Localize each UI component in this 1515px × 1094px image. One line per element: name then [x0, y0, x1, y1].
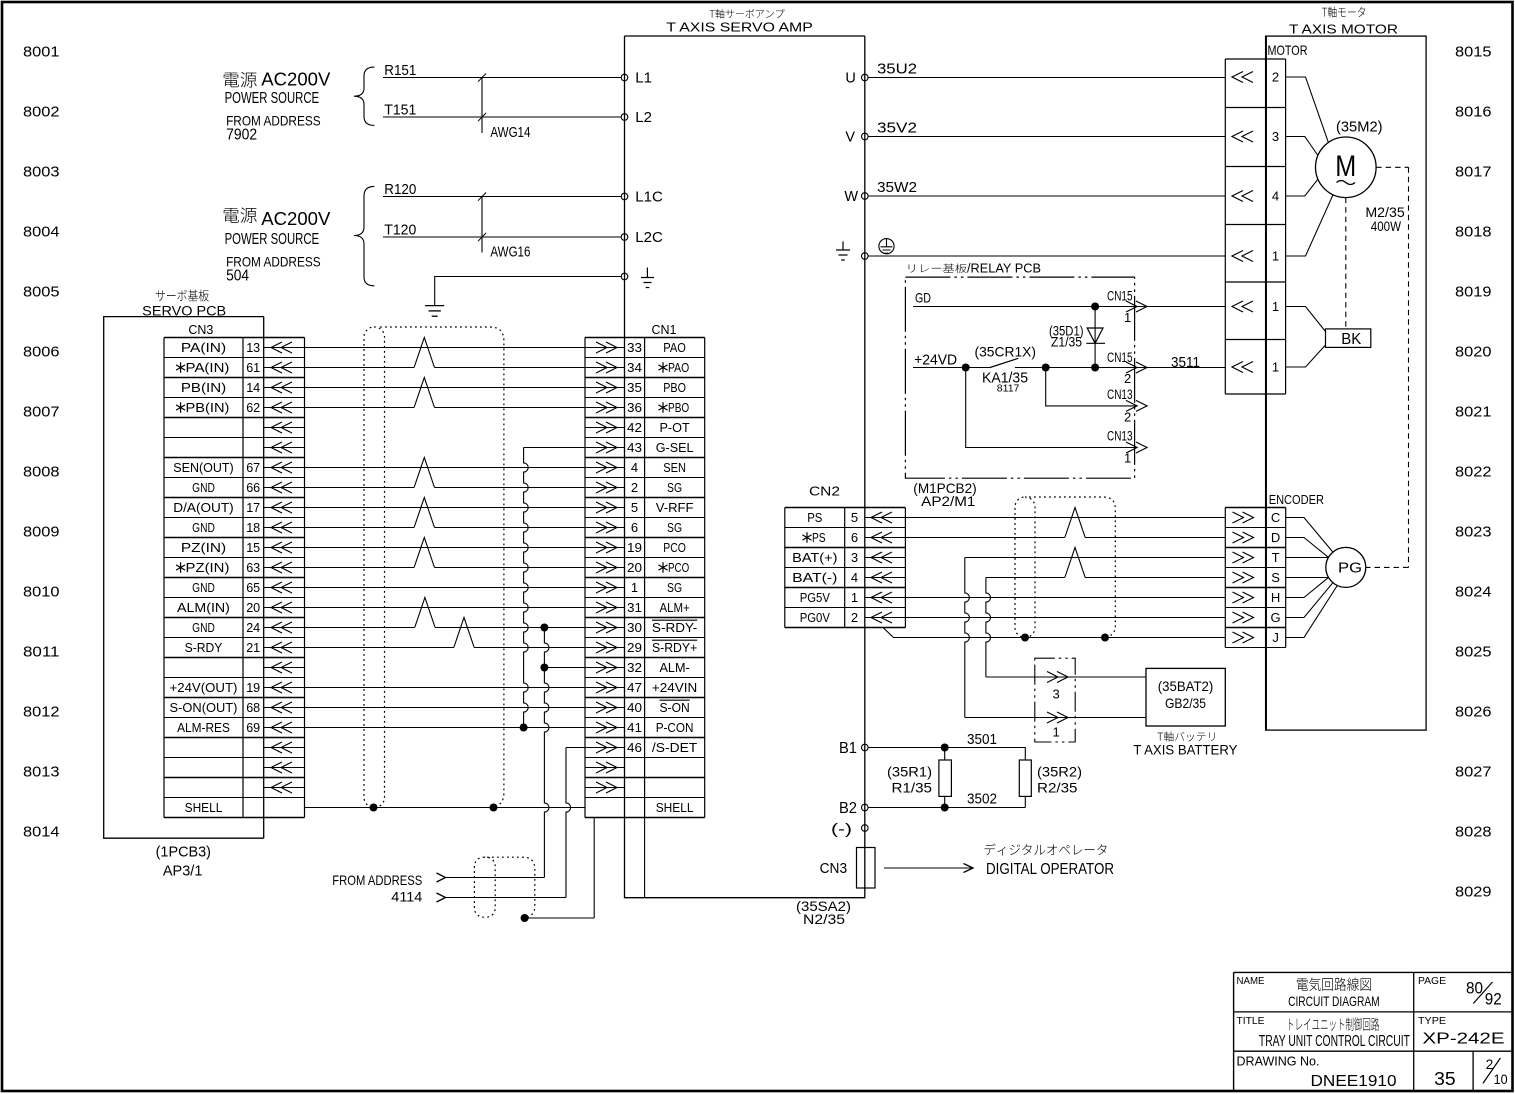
svg-text:PG0V: PG0V	[800, 610, 830, 625]
svg-text:PBO: PBO	[663, 380, 686, 395]
svg-text:8029: 8029	[1455, 884, 1492, 901]
svg-text:(35R1): (35R1)	[887, 763, 932, 779]
wire G-SEL from vertical	[524, 447, 585, 449]
svg-text:B2: B2	[839, 800, 857, 817]
svg-text:PCO: PCO	[663, 540, 686, 555]
svg-text:5: 5	[631, 500, 638, 515]
arrowhead FROM ADDRESS 1	[437, 873, 446, 882]
wire encoder G to PG	[1286, 583, 1333, 618]
CN2 arrow	[865, 617, 906, 619]
CN2 pin 6 *PS	[802, 532, 811, 542]
wire battery plus	[986, 676, 1146, 678]
svg-text:S-ON: S-ON	[660, 700, 690, 715]
terminal W	[862, 193, 869, 200]
encoder pin J	[1233, 632, 1244, 643]
CN3 arrow	[264, 767, 305, 769]
svg-text:POWER SOURCE: POWER SOURCE	[225, 90, 320, 107]
svg-text:CN15: CN15	[1107, 288, 1133, 303]
svg-text:TRAY UNIT CONTROL CIRCUIT: TRAY UNIT CONTROL CIRCUIT	[1259, 1033, 1410, 1050]
earth symbol at ground terminal	[641, 268, 654, 288]
svg-text:504: 504	[226, 268, 249, 285]
svg-text:1: 1	[851, 590, 858, 605]
CN1 arrow	[585, 607, 625, 609]
svg-text:13: 13	[246, 340, 260, 355]
svg-text:TITLE: TITLE	[1237, 1015, 1265, 1027]
svg-text:GND: GND	[192, 480, 215, 495]
relay contact 35CR1X KA1/35	[990, 358, 1018, 367]
svg-text:ALM-: ALM-	[660, 660, 690, 675]
wire contact to CN15-2	[1015, 367, 1225, 369]
terminal B2	[862, 804, 869, 811]
svg-text:D: D	[1271, 530, 1280, 545]
svg-text:(1PCB3): (1PCB3)	[156, 844, 211, 860]
svg-text:3511: 3511	[1171, 354, 1200, 371]
motor connector pin 3	[1232, 131, 1243, 142]
svg-text:P-OT: P-OT	[660, 420, 690, 435]
svg-text:1: 1	[1272, 299, 1279, 314]
svg-text:8016: 8016	[1455, 104, 1492, 121]
CN1 arrow	[585, 467, 625, 469]
svg-text:67: 67	[246, 460, 260, 475]
shield outline encoder wires	[1029, 497, 1115, 638]
svg-text:4: 4	[851, 570, 858, 585]
CN3 arrow	[264, 467, 305, 469]
vertical wire BAT- to battery with hops	[986, 578, 991, 678]
encoder pin C	[1233, 512, 1244, 523]
svg-text:1: 1	[1124, 310, 1131, 325]
CN2 arrow	[865, 537, 906, 539]
svg-text:1: 1	[631, 580, 638, 595]
resistor 35R1 R1/35	[944, 748, 946, 761]
shield outline FROM ADDRESS	[487, 857, 535, 918]
svg-text:PAO: PAO	[663, 340, 686, 355]
CN1 arrow	[585, 447, 625, 449]
svg-text:2: 2	[1124, 371, 1131, 386]
svg-text:MOTOR: MOTOR	[1268, 42, 1308, 58]
CN3 arrow	[264, 707, 305, 709]
svg-text:R151: R151	[384, 62, 416, 79]
wire FROM ADDRESS 1	[445, 877, 544, 879]
svg-text:ENCODER: ENCODER	[1269, 492, 1324, 507]
wire motor pin4 to M	[1286, 179, 1318, 196]
wire BAT- to encoder S with twist	[986, 577, 1065, 579]
wire encoder S to PG	[1286, 577, 1329, 579]
motor connector table	[1225, 58, 1285, 60]
wire T151	[383, 116, 621, 118]
wire row2 with twist	[305, 367, 415, 369]
CN3 table grid	[164, 337, 305, 339]
resistor 35R2 R2/35	[1019, 760, 1031, 796]
svg-text:46: 46	[627, 740, 642, 755]
shield capsule CN3-CN1	[364, 327, 385, 808]
svg-text:B1: B1	[839, 740, 857, 757]
CN3 arrow	[264, 627, 305, 629]
wire row15 with twist, junction to vertical	[305, 627, 415, 629]
wire motor pin3 to M	[1286, 137, 1318, 156]
CN1 arrow	[585, 687, 625, 689]
protective earth circle symbol	[879, 239, 894, 254]
wire motor pin1 to M	[1286, 195, 1333, 256]
svg-text:S: S	[1271, 570, 1280, 585]
svg-text:65: 65	[246, 580, 260, 595]
svg-text:CN13: CN13	[1107, 429, 1133, 444]
svg-text:PA(IN): PA(IN)	[181, 340, 226, 355]
wire 35V2	[868, 136, 1225, 138]
CN3 arrow	[264, 687, 305, 689]
svg-text:(35R2): (35R2)	[1037, 763, 1082, 779]
svg-text:L2C: L2C	[635, 229, 663, 246]
svg-text:8001: 8001	[23, 44, 60, 61]
CN1 arrow	[585, 507, 625, 509]
svg-text:8010: 8010	[23, 584, 60, 601]
svg-text:+24VD: +24VD	[914, 352, 957, 369]
svg-text:17: 17	[246, 500, 260, 515]
shield capsule FROM ADDRESS	[474, 857, 495, 917]
brace power source 1	[354, 67, 374, 125]
wire encoder C to PG	[1286, 518, 1333, 553]
ground symbol	[425, 305, 444, 307]
wire row16 with twist	[305, 647, 454, 649]
CN3 arrow	[264, 607, 305, 609]
CN3 pin 63 *PZ(IN)	[176, 562, 185, 572]
connector CN15 pin 2 arrow	[1126, 362, 1137, 373]
svg-text:PS: PS	[812, 530, 826, 545]
CN2 arrow	[865, 517, 906, 519]
svg-text:SHELL: SHELL	[185, 800, 223, 815]
CN1 arrow	[585, 667, 625, 669]
terminal ground	[621, 273, 628, 280]
svg-text:8009: 8009	[23, 524, 60, 541]
CN2 arrow	[865, 597, 906, 599]
svg-text:GD: GD	[915, 290, 931, 306]
brace power source 2	[354, 186, 374, 285]
wire battery minus	[965, 717, 1146, 719]
svg-text:8012: 8012	[23, 704, 60, 721]
svg-text:H: H	[1271, 590, 1280, 605]
CN3 arrow	[264, 487, 305, 489]
svg-text:3: 3	[1053, 687, 1060, 702]
vertical wire GND/ALM- to FROM ADDRESS with hops	[544, 628, 549, 878]
svg-text:D/A(OUT): D/A(OUT)	[173, 500, 233, 515]
svg-text:BAT(+): BAT(+)	[792, 550, 837, 565]
wire R120	[383, 196, 621, 198]
svg-text:/RELAY PCB: /RELAY PCB	[967, 261, 1041, 275]
svg-text:Z1/35: Z1/35	[1051, 334, 1082, 350]
wire to CN13-2	[1046, 368, 1138, 406]
label relay pcb	[909, 264, 967, 273]
svg-text:C: C	[1271, 510, 1280, 525]
svg-text:2: 2	[851, 610, 858, 625]
svg-text:P-CON: P-CON	[656, 720, 694, 735]
CN3 arrow	[264, 747, 305, 749]
svg-text:24: 24	[246, 620, 260, 635]
CN3 arrow	[264, 727, 305, 729]
motor connector pin 1	[1232, 362, 1243, 373]
wire PG0V to encoder G	[868, 617, 1225, 619]
wire row21 /S-DET from vertical	[566, 747, 585, 749]
svg-text:69: 69	[246, 720, 260, 735]
wire PE to motor	[868, 255, 1225, 257]
svg-text:41: 41	[627, 720, 642, 735]
shield capsule encoder wires	[1015, 497, 1035, 638]
svg-text:8023: 8023	[1455, 524, 1492, 541]
svg-text:S-ON(OUT): S-ON(OUT)	[170, 700, 238, 715]
svg-text:(35BAT2): (35BAT2)	[1158, 678, 1214, 694]
CN1 arrow	[585, 587, 625, 589]
svg-text:30: 30	[627, 620, 642, 635]
power source 1 label JP 電源	[224, 72, 257, 87]
svg-text:43: 43	[627, 440, 642, 455]
svg-text:400W: 400W	[1371, 218, 1402, 234]
CN1 arrow	[585, 527, 625, 529]
label digital operator JP	[985, 844, 1107, 856]
dashed link M to PG	[1366, 167, 1409, 567]
svg-text:62: 62	[246, 400, 260, 415]
svg-text:8015: 8015	[1455, 44, 1492, 61]
CN1 pin 34 *PAO	[658, 362, 667, 372]
svg-text:PAO: PAO	[668, 360, 689, 375]
CN3 arrow	[264, 547, 305, 549]
encoder pin H	[1233, 592, 1244, 603]
CN3 arrow	[264, 587, 305, 589]
svg-text:ALM(IN): ALM(IN)	[177, 600, 230, 615]
terminal V	[862, 133, 869, 140]
svg-text:NAME: NAME	[1237, 975, 1265, 987]
svg-text:33: 33	[627, 340, 642, 355]
svg-text:DNEE1910: DNEE1910	[1311, 1073, 1397, 1090]
svg-text:L1: L1	[635, 70, 652, 87]
CN1 arrow	[585, 407, 625, 409]
svg-text:8013: 8013	[23, 764, 60, 781]
svg-text:8004: 8004	[23, 224, 60, 241]
svg-text:5: 5	[851, 510, 858, 525]
CN1 arrow	[585, 427, 625, 429]
wire +24VD	[913, 367, 990, 369]
terminal U	[862, 74, 869, 81]
CN3 pin 61 *PA(IN)	[176, 362, 185, 372]
svg-text:T151: T151	[384, 101, 416, 118]
svg-text:R1/35: R1/35	[892, 780, 933, 796]
svg-text:PA(IN): PA(IN)	[186, 360, 230, 375]
svg-text:18: 18	[246, 520, 260, 535]
svg-text:15: 15	[246, 540, 260, 555]
CN1 arrow	[585, 727, 625, 729]
wire 35W2	[868, 195, 1225, 197]
CN1 arrow	[585, 767, 625, 769]
encoder pin S	[1233, 572, 1244, 583]
CN1 arrow	[585, 627, 625, 629]
svg-text:8117: 8117	[997, 382, 1020, 394]
wire row13 GND-SG	[305, 587, 586, 589]
vertical wire G-SEL to P-CON with hops	[524, 448, 529, 728]
svg-text:35W2: 35W2	[877, 179, 917, 196]
encoder pin D	[1233, 532, 1244, 543]
wire FROM ADDRESS 2 (4114)	[445, 897, 566, 899]
CN1 arrow	[585, 547, 625, 549]
svg-text:N2/35: N2/35	[803, 911, 845, 927]
CN3 arrow	[264, 567, 305, 569]
encoder pin G	[1233, 612, 1244, 623]
connector CN15 pin 1 arrow	[1126, 301, 1137, 312]
vertical wire /S-DET to 4114 with hops	[566, 748, 571, 898]
terminal L2	[621, 114, 628, 121]
svg-text:(35M2): (35M2)	[1336, 119, 1383, 135]
svg-text:AP3/1: AP3/1	[163, 864, 203, 880]
CN3 arrow	[264, 647, 305, 649]
CN3 pin 62 *PB(IN)	[176, 402, 185, 412]
svg-text:8006: 8006	[23, 344, 60, 361]
shield outline CN3-CN1	[380, 327, 504, 808]
wire encoder H to PG	[1286, 577, 1329, 597]
CN3 arrow	[264, 407, 305, 409]
svg-text:G-SEL: G-SEL	[656, 440, 694, 455]
svg-text:S-RDY-: S-RDY-	[652, 620, 697, 635]
wire row3	[305, 387, 586, 389]
svg-text:BAT(-): BAT(-)	[792, 570, 837, 585]
motor M circle 35M2	[1316, 137, 1377, 198]
svg-text:SHELL: SHELL	[656, 800, 694, 815]
svg-text:8014: 8014	[23, 824, 60, 841]
svg-text:PS: PS	[807, 510, 822, 525]
arrowhead FROM ADDRESS 2	[437, 893, 446, 902]
svg-text:35V2: 35V2	[877, 120, 917, 137]
svg-text:/S-DET: /S-DET	[652, 740, 697, 755]
wire encoder T to PG	[1286, 557, 1329, 559]
wire B2 to resistors	[868, 807, 1025, 809]
svg-text:AWG14: AWG14	[490, 125, 530, 141]
wire row11 PZ	[305, 547, 586, 549]
wire motor pin1-3511 to BK	[1286, 345, 1326, 367]
cable tie AWG16	[481, 197, 483, 253]
shield drain junction	[521, 914, 529, 922]
svg-text:2: 2	[1272, 70, 1279, 85]
svg-text:T AXIS SERVO AMP: T AXIS SERVO AMP	[666, 21, 813, 35]
svg-text:40: 40	[627, 700, 642, 715]
label T axis battery JP	[1157, 732, 1214, 742]
CN3 arrow	[264, 787, 305, 789]
wire SHELL net	[305, 807, 586, 809]
svg-text:(35CR1X): (35CR1X)	[975, 343, 1037, 359]
svg-text:8005: 8005	[23, 284, 60, 301]
CN3 arrow	[264, 447, 305, 449]
svg-text:4: 4	[631, 460, 638, 475]
svg-text:CN1: CN1	[652, 323, 677, 337]
svg-text:2: 2	[631, 480, 638, 495]
servo pcb box	[104, 317, 264, 839]
svg-text:29: 29	[627, 640, 642, 655]
svg-text:92: 92	[1485, 989, 1502, 1008]
svg-text:GND: GND	[192, 580, 215, 595]
wire row12 with twist	[305, 567, 415, 569]
wire *PS to encoder D with twist	[868, 537, 1065, 539]
svg-text:21: 21	[246, 640, 260, 655]
wire PAO pair row1	[305, 347, 586, 349]
svg-text:DRAWING No.: DRAWING No.	[1237, 1054, 1320, 1069]
svg-text:GND: GND	[192, 520, 215, 535]
svg-text:36: 36	[627, 400, 642, 415]
svg-text:6: 6	[631, 520, 638, 535]
svg-text:20: 20	[246, 600, 260, 615]
encoder pin T	[1233, 552, 1244, 563]
svg-text:68: 68	[246, 700, 260, 715]
CN1 pin 36 *PBO	[658, 402, 667, 412]
svg-text:SG: SG	[667, 480, 682, 495]
svg-text:SG: SG	[667, 520, 682, 535]
svg-text:3501: 3501	[967, 732, 997, 748]
CN1 table grid	[585, 337, 705, 339]
CN1 arrow	[585, 487, 625, 489]
svg-text:3502: 3502	[967, 792, 997, 808]
svg-text:ALM-RES: ALM-RES	[177, 720, 230, 735]
wire GD to CN15-1	[913, 306, 1225, 308]
wire B1 to resistors	[868, 748, 1025, 761]
wire to CN13-1	[966, 368, 1138, 448]
svg-text:8007: 8007	[23, 404, 60, 421]
CN1 arrow	[585, 747, 625, 749]
svg-text:35U2: 35U2	[877, 61, 917, 78]
encoder PG circle	[1326, 547, 1366, 587]
dashed link M to BK	[1345, 198, 1347, 329]
svg-text:1: 1	[1053, 725, 1060, 740]
svg-text:3: 3	[851, 550, 858, 565]
svg-text:ALM+: ALM+	[660, 600, 690, 615]
wire row19 S-ON	[305, 707, 586, 709]
svg-text:PAGE: PAGE	[1418, 975, 1446, 987]
label T axis motor JP	[1322, 7, 1365, 18]
wire row20 P-CON	[305, 727, 586, 729]
terminal L1	[621, 74, 628, 81]
CN1 arrow	[585, 567, 625, 569]
CN3 arrow	[264, 387, 305, 389]
wire encoder J to PG	[1286, 586, 1338, 638]
svg-text:CN15: CN15	[1107, 350, 1133, 365]
CN1 arrow	[585, 367, 625, 369]
motor box	[1266, 36, 1427, 730]
CN3 arrow	[264, 527, 305, 529]
svg-text:4114: 4114	[391, 888, 422, 904]
svg-text:8027: 8027	[1455, 764, 1492, 781]
svg-text:8021: 8021	[1455, 404, 1492, 421]
CN3 arrow	[264, 667, 305, 669]
svg-text:14: 14	[246, 380, 260, 395]
svg-text:T: T	[1272, 550, 1280, 565]
wire CN1 shell down to 35SA2 connector	[644, 818, 646, 898]
CN1 arrow	[585, 787, 625, 789]
svg-text:8026: 8026	[1455, 704, 1492, 721]
CN1 arrow	[585, 647, 625, 649]
power source 2 label JP 電源	[224, 207, 257, 222]
svg-text:8008: 8008	[23, 464, 60, 481]
svg-text:GND: GND	[192, 620, 215, 635]
svg-text:XP-242E: XP-242E	[1423, 1030, 1505, 1047]
arrow to digital operator	[884, 867, 972, 869]
svg-text:POWER SOURCE: POWER SOURCE	[225, 231, 320, 248]
svg-text:CN13: CN13	[1107, 387, 1133, 402]
CN3 arrow	[264, 427, 305, 429]
svg-text:47: 47	[627, 680, 642, 695]
terminal L2C	[621, 234, 628, 241]
wire row8 with twist	[305, 487, 415, 489]
CN2 arrow	[865, 557, 906, 559]
label servo pcb JP	[156, 289, 209, 301]
motor connector pin 2	[1232, 72, 1243, 83]
wire row17 ALM- from vertical	[540, 664, 548, 672]
svg-text:34: 34	[627, 360, 642, 375]
svg-text:SG: SG	[667, 580, 682, 595]
svg-text:S-RDY: S-RDY	[185, 640, 223, 655]
svg-text:PZ(IN): PZ(IN)	[186, 560, 230, 575]
svg-text:+24VIN: +24VIN	[652, 680, 697, 695]
